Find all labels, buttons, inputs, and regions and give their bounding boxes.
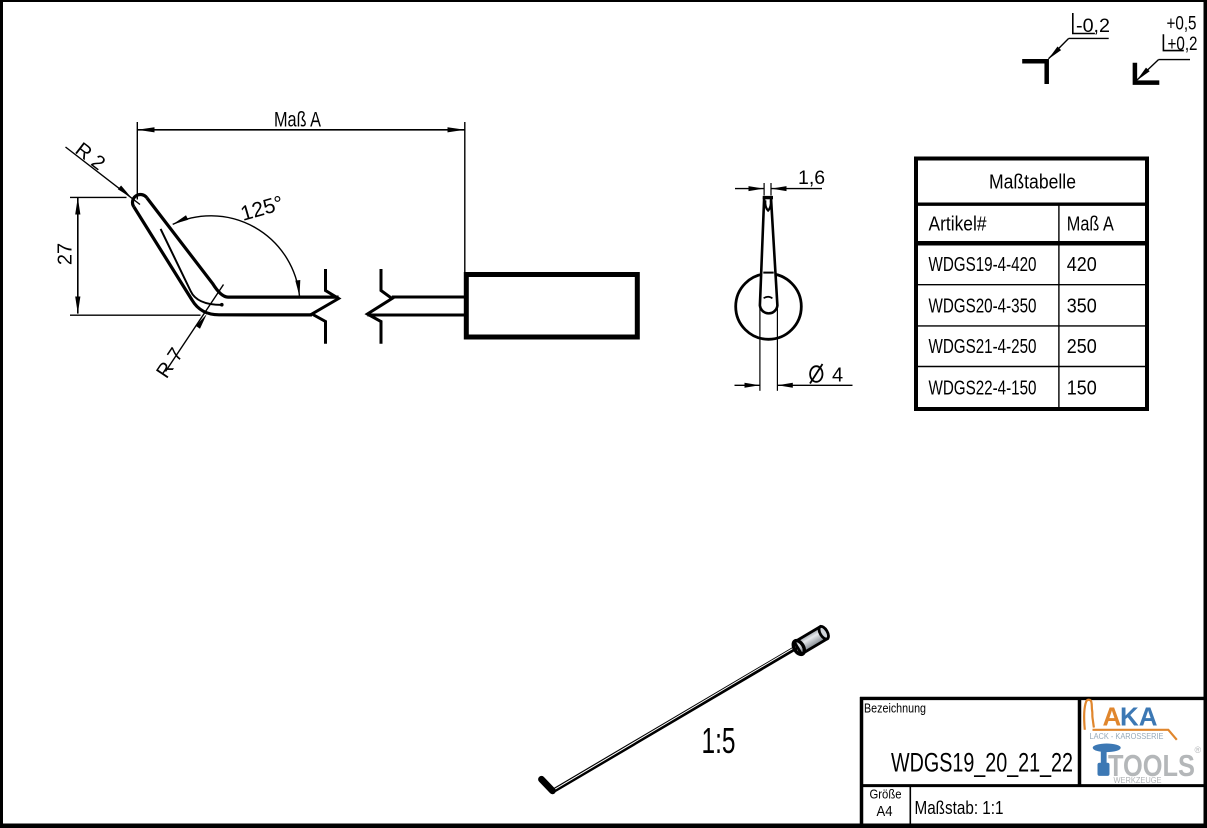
end view blade outline [760,197,778,314]
AKA logo text [1103,702,1158,732]
svg-text:-0,2: -0,2 [1076,15,1110,37]
svg-text:WDGS19_20_21_22: WDGS19_20_21_22 [891,748,1073,778]
svg-text:Maßstab: 1:1: Maßstab: 1:1 [915,797,1004,818]
svg-text:350: 350 [1067,295,1097,317]
svg-text:150: 150 [1067,378,1097,400]
svg-text:+0,2: +0,2 [1168,33,1198,55]
title block frame [860,697,1204,824]
isometric view bent tip [542,779,553,791]
svg-text:WDGS21-4-250: WDGS21-4-250 [929,336,1037,358]
svg-text:A4: A4 [877,804,893,820]
rod segment right bottom line [367,314,467,317]
svg-text:WDGS22-4-150: WDGS22-4-150 [929,378,1037,400]
svg-text:Größe: Größe [870,787,902,801]
dimension dia 4 [735,308,853,391]
radius leader R7 [152,285,223,383]
svg-text:420: 420 [1067,254,1097,276]
svg-text:4: 4 [832,365,843,387]
angle arc 125 deg [173,192,301,296]
dimension Mass A [137,109,465,273]
handle rectangle [466,275,637,338]
end view center dashes [763,272,773,274]
AKA logo orange hook [1084,700,1177,740]
svg-text:Maßtabelle: Maßtabelle [989,171,1076,193]
table Masstabelle [916,159,1147,410]
isometric view handle [791,624,831,656]
break symbol left [312,269,339,344]
end view circle [736,274,802,340]
svg-text:KA: KA [1120,702,1158,732]
dimension 27 [55,197,201,315]
svg-text:®: ® [1195,745,1202,755]
svg-text:1,6: 1,6 [798,167,825,189]
svg-text:Artikel#: Artikel# [929,214,988,236]
dimension 1,6 [735,167,825,196]
main view bent rod body [132,194,338,314]
svg-text:+0,5: +0,5 [1167,13,1197,35]
svg-text:WDGS19-4-420: WDGS19-4-420 [929,254,1037,276]
svg-text:LACK - KAROSSERIE: LACK - KAROSSERIE [1090,732,1164,741]
rod segment right top line [392,296,467,299]
svg-text:Maß A: Maß A [274,109,321,132]
svg-text:A: A [1103,702,1122,732]
svg-text:WERKZEUGE: WERKZEUGE [1114,775,1162,785]
break symbol right [367,269,392,344]
svg-text:27: 27 [55,243,77,265]
svg-text:Bezeichnung: Bezeichnung [864,702,926,716]
svg-text:1:5: 1:5 [702,720,736,761]
edge tolerance symbol minus 0,2 [1022,13,1110,84]
svg-text:Maß A: Maß A [1067,214,1115,236]
edge tolerance symbol plus 0,5 plus 0,2 [1135,13,1198,83]
isometric view rod [553,646,798,791]
tools logo blue tool icon [1093,744,1121,776]
svg-text:WDGS20-4-350: WDGS20-4-350 [929,295,1037,317]
blade inner edge line [161,229,224,307]
radius leader R2 [66,139,141,205]
title block texts [864,702,1073,821]
svg-text:250: 250 [1067,336,1097,358]
